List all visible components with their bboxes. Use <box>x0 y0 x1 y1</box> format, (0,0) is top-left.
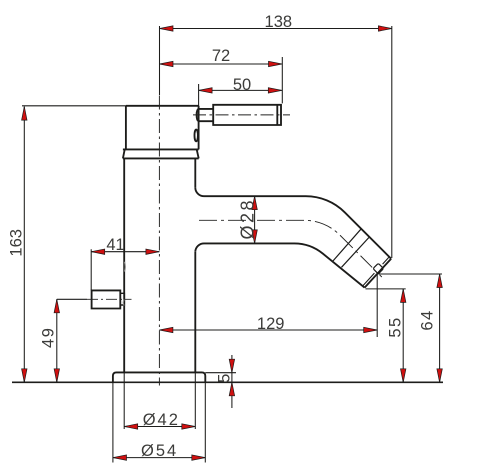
side valve cap <box>120 293 124 305</box>
countertop mounting surface line <box>12 381 443 383</box>
faint arcs on column edge <box>123 262 125 306</box>
svg-text:64: 64 <box>419 309 437 330</box>
arrowheads 163 <box>22 107 27 121</box>
collar below body <box>123 149 199 158</box>
svg-text:Ø54: Ø54 <box>141 442 178 460</box>
arrowheads 55 <box>401 289 406 303</box>
dimension 50 lines <box>199 84 282 108</box>
faucet body cartridge housing <box>123 106 199 150</box>
dimension 72 lines <box>160 57 283 103</box>
spout top edge <box>195 188 391 259</box>
svg-text:50: 50 <box>233 76 251 94</box>
svg-text:163: 163 <box>8 229 26 257</box>
centerline of spout tube <box>199 220 372 267</box>
spout bottom edge <box>195 243 364 287</box>
base plate <box>113 372 205 382</box>
arrowheads diameter 42 <box>124 424 138 429</box>
aerator end face inner line <box>363 257 389 286</box>
dimension diameter 28 line <box>254 196 256 243</box>
arrowheads 64 <box>437 274 442 288</box>
svg-text:5: 5 <box>216 374 234 383</box>
dimension 138 lines <box>160 26 392 258</box>
dimension 5 lines <box>205 355 236 408</box>
arrowheads diameter 28 <box>252 196 257 210</box>
svg-text:55: 55 <box>387 316 405 337</box>
svg-text:138: 138 <box>265 13 293 31</box>
dimension 129 lines <box>159 274 377 337</box>
dimension 55 lines <box>366 289 406 382</box>
faint arc on column upper <box>123 262 126 272</box>
dimension diameter 54 lines <box>113 382 205 462</box>
svg-text:41: 41 <box>106 236 124 254</box>
handle lever <box>213 105 281 125</box>
svg-text:49: 49 <box>40 327 58 348</box>
handle stem <box>197 109 214 121</box>
arrowheads 72 <box>160 61 174 66</box>
dimension 41 lines <box>91 249 159 290</box>
arrowheads 129 <box>159 327 173 332</box>
side valve body <box>92 290 121 308</box>
faint arc at valve cap <box>122 300 125 306</box>
dimension 49 lines <box>57 299 87 382</box>
arrowheads 41 <box>91 249 105 254</box>
arrowheads diameter 54 <box>113 455 127 460</box>
arrowheads 5 <box>229 359 234 373</box>
dimension diameter 42 lines <box>124 372 195 429</box>
small screw ellipse on body <box>195 130 198 142</box>
vertical centerline of faucet column <box>158 96 160 386</box>
aerator joint line 2 <box>342 237 370 268</box>
centerline of handle lever <box>193 114 290 116</box>
arrowheads 49 <box>54 299 59 313</box>
centerline tick at aerator outlet <box>380 275 382 277</box>
svg-text:129: 129 <box>257 315 285 333</box>
svg-text:72: 72 <box>212 47 230 65</box>
dimension 64 lines <box>378 274 442 382</box>
arrowheads 50 <box>199 88 213 93</box>
svg-text:Ø42: Ø42 <box>143 411 180 429</box>
aerator end face <box>365 259 392 288</box>
column (riser) edges <box>124 158 195 372</box>
aerator outlet <box>373 263 384 274</box>
centerline of side valve <box>87 298 132 300</box>
arrowheads 138 <box>160 26 174 31</box>
aerator joint line 1 <box>333 229 362 262</box>
svg-text:Ø28: Ø28 <box>238 198 258 240</box>
dimension 163 lines <box>22 106 126 383</box>
